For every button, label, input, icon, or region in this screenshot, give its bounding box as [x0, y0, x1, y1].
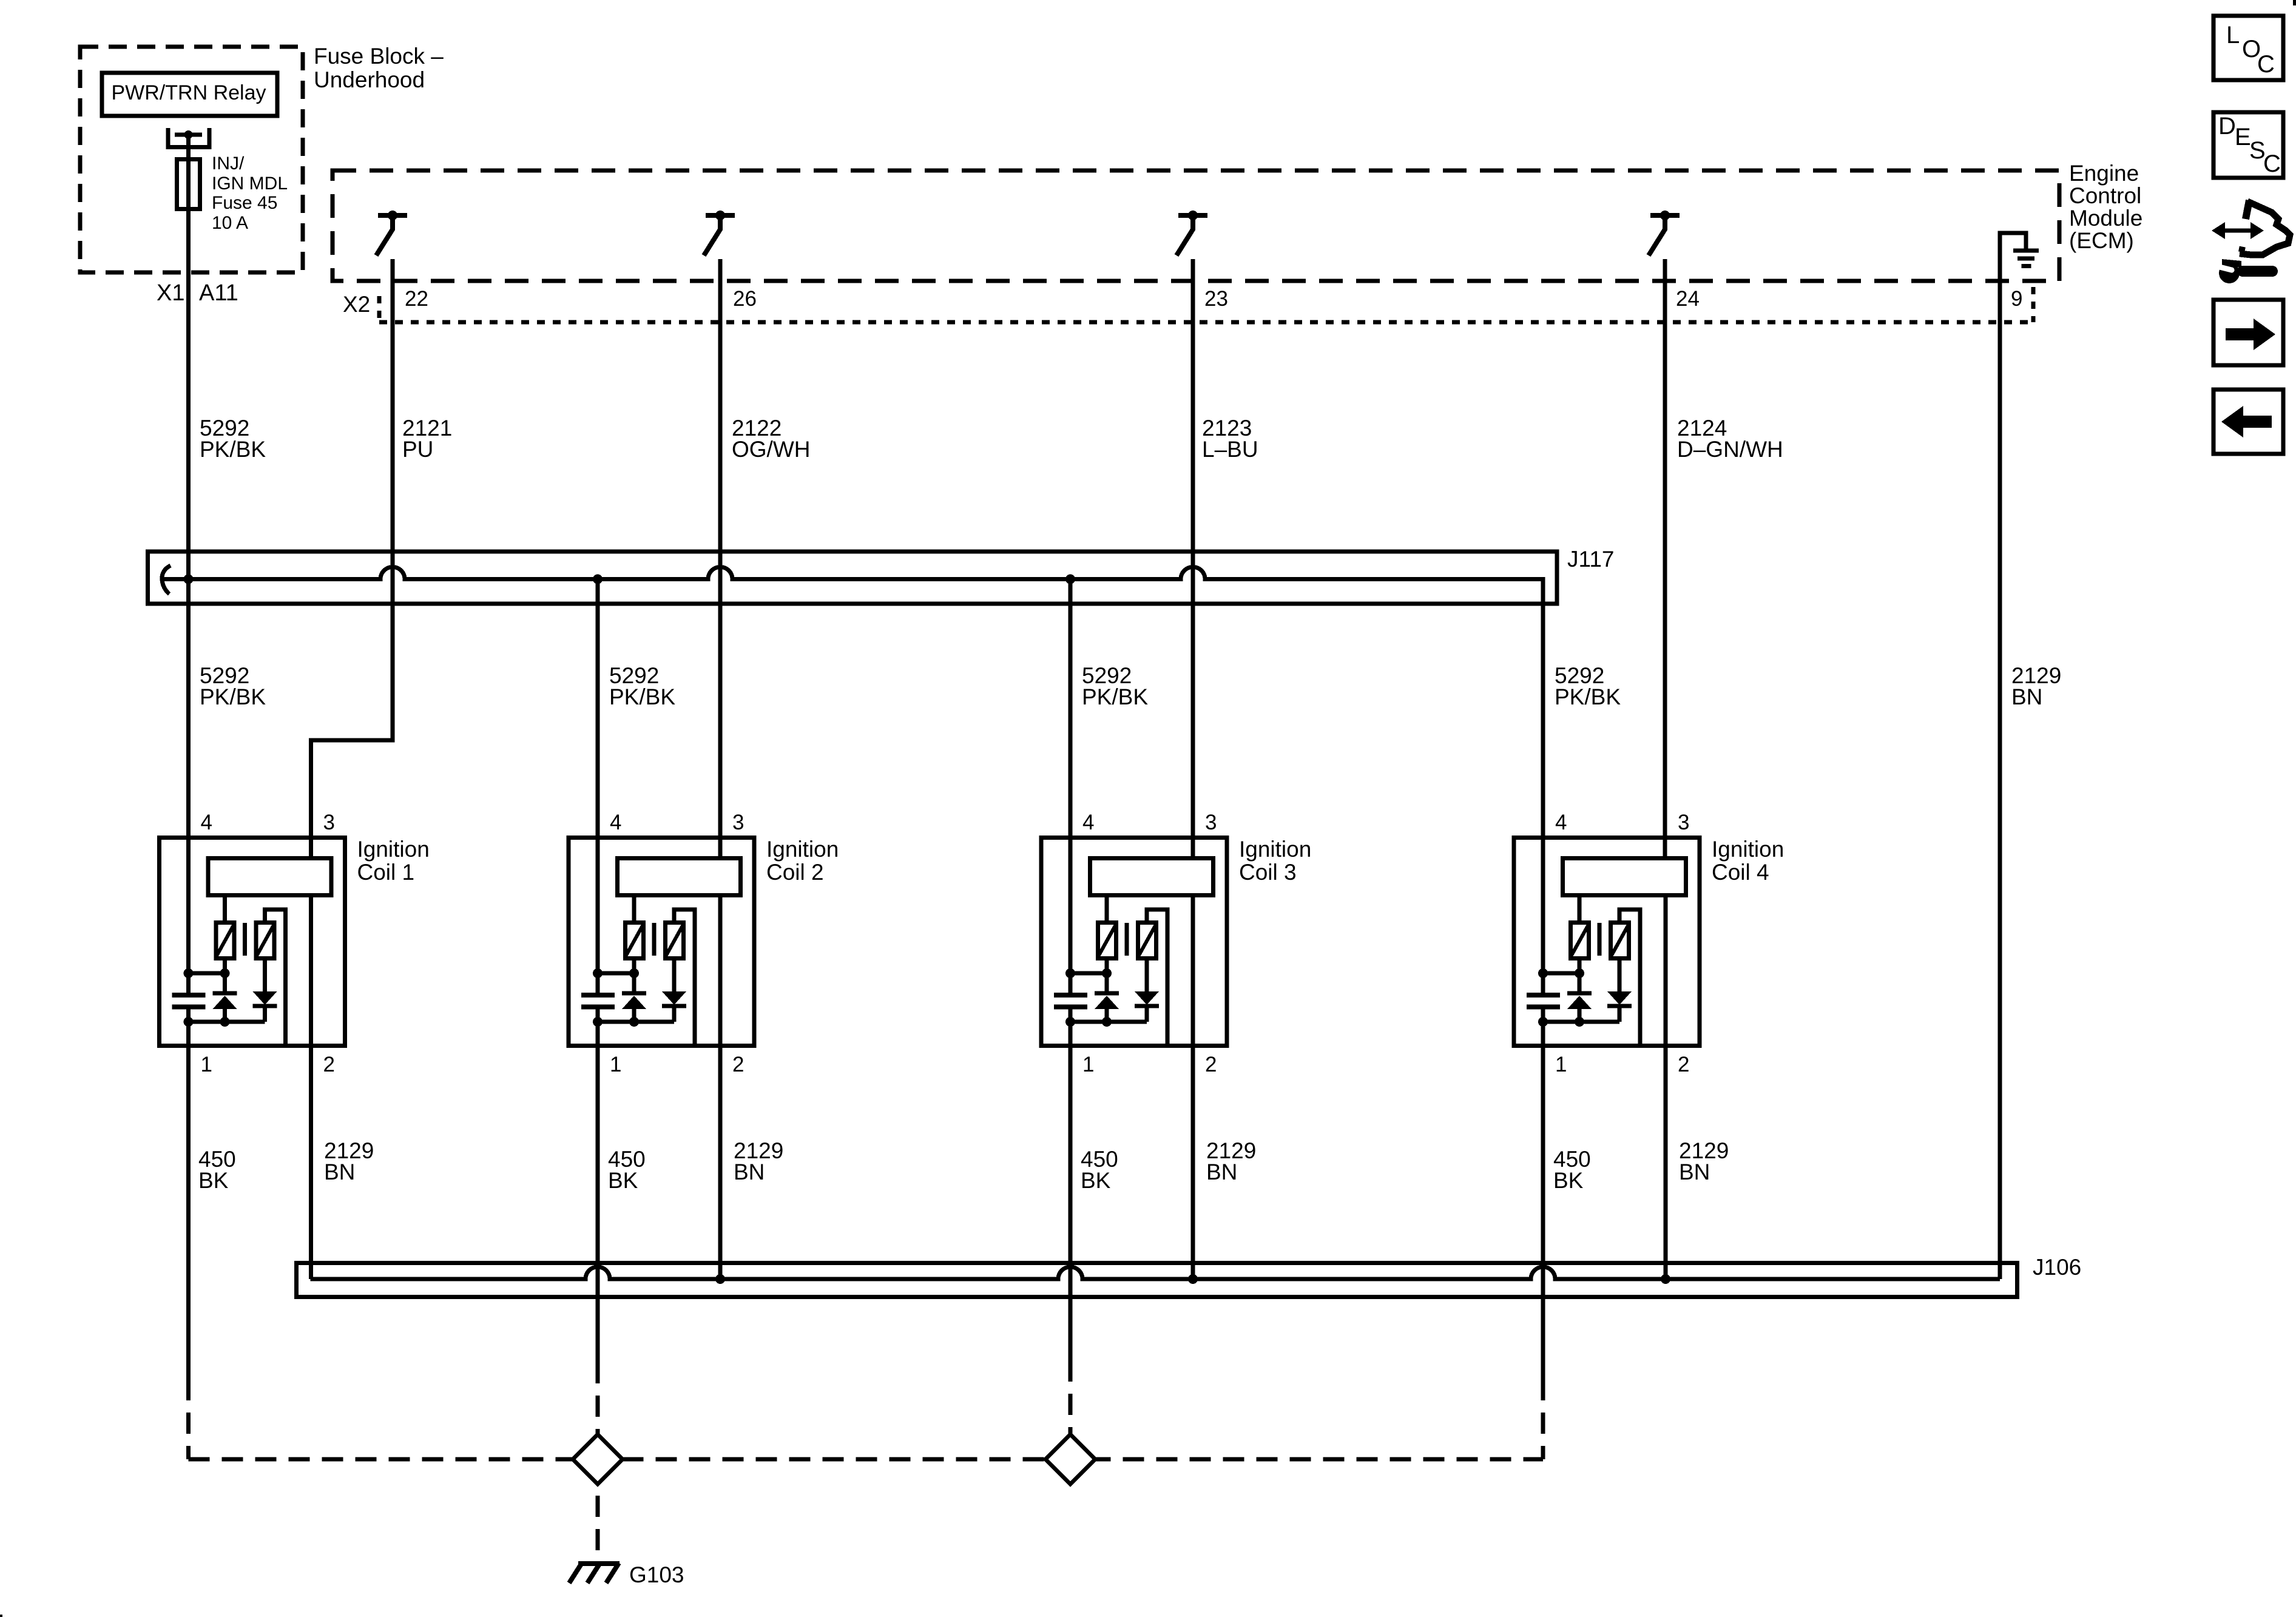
svg-text:Fuse Block –: Fuse Block – [314, 44, 444, 69]
ignition coil 3 bottom junction wire [1070, 1020, 1147, 1024]
ignition coil 3 outer box [1041, 838, 1227, 1046]
wire from pin 23 [1191, 259, 1195, 858]
ECM driver switch pin 24 [1650, 213, 1680, 218]
svg-text:D: D [2218, 113, 2236, 140]
engine control module dashed box [333, 170, 2059, 281]
svg-text:Ignition: Ignition [766, 837, 839, 862]
wire from pin 26 [718, 259, 723, 858]
svg-text:4: 4 [1555, 811, 1567, 834]
svg-text:4: 4 [1082, 811, 1094, 834]
ignition coil 1 bottom dot B [220, 1017, 230, 1027]
ignition coil 4 junction dot A [1538, 968, 1548, 978]
svg-text:BN: BN [324, 1160, 355, 1184]
ignition coil 4 loop wire from driver 2 to case bottom [1619, 910, 1640, 1048]
ECM internal ground and wire 2129 from pin 9 to J106 [2000, 233, 2026, 1279]
svg-text:3: 3 [732, 811, 744, 834]
svg-text:Ignition: Ignition [1712, 837, 1784, 862]
ignition coil 2 zener diode D1 (up) [632, 960, 636, 993]
J106 dot coil 4 [1661, 1274, 1670, 1284]
svg-text:Module: Module [2069, 206, 2142, 231]
svg-text:E: E [2235, 124, 2251, 150]
ignition coil 4 driver box 2 [1611, 923, 1629, 959]
page corner mark top right [2293, 0, 2296, 5]
ignition coil 1 junction wire row [189, 971, 225, 976]
svg-text:3: 3 [1678, 811, 1689, 834]
svg-text:Control: Control [2069, 183, 2141, 208]
J106 dot coil 2 [715, 1274, 725, 1284]
ignition coil 3 zener diode D1 (up) [1105, 960, 1109, 993]
ignition coil 1 junction dot A [184, 968, 194, 978]
ignition coil 1 diode D2 (down) [263, 960, 267, 991]
dashed ground bus wire [189, 1457, 1544, 1462]
svg-text:G103: G103 [629, 1562, 684, 1587]
svg-text:Coil 2: Coil 2 [766, 860, 824, 885]
ignition coil 1 driver box 2 [256, 923, 274, 959]
svg-text:1: 1 [201, 1053, 212, 1076]
ignition coil 3 capacitor C [1069, 973, 1073, 993]
PWR/TRN relay box [102, 73, 277, 116]
ignition coil 2 bottom junction wire [598, 1020, 674, 1024]
wire 2129 coil 3 pin 2 to J106 [1191, 896, 1195, 1279]
page corner mark bottom left [0, 1615, 2, 1617]
svg-text:23: 23 [1204, 287, 1228, 311]
svg-text:Coil 3: Coil 3 [1239, 860, 1297, 885]
ignition coil 2 capacitor C [596, 973, 600, 993]
J117 dot coil 2 feed [593, 575, 603, 584]
ignition coil 2 driver box 2 [666, 923, 684, 959]
relay terminal bracket [168, 128, 209, 147]
ignition coil 3 bottom dot A [1065, 1017, 1075, 1027]
ignition coil 4 driver box 1 [1571, 923, 1589, 959]
svg-text:BK: BK [1553, 1168, 1584, 1193]
J106 dot coil 3 [1188, 1274, 1198, 1284]
ignition coil 2 diode D2 (down) [672, 960, 677, 991]
ignition coil 1 primary winding box [208, 859, 331, 896]
svg-text:26: 26 [733, 287, 757, 311]
svg-text:BK: BK [198, 1168, 229, 1193]
svg-text:OG/WH: OG/WH [732, 437, 810, 462]
J117 internal bus wire with hops, exits down to coil 4 pin 4 [162, 565, 171, 594]
svg-text:C: C [2257, 51, 2275, 78]
ignition coil 2 junction dot B [629, 968, 639, 978]
ignition coil 2 junction dot A [593, 968, 603, 978]
J106 internal bus wire with hops [311, 1267, 2001, 1279]
svg-text:4: 4 [201, 811, 212, 834]
ignition coil 1 outer box [160, 838, 345, 1046]
ECM driver switch pin 23 [1178, 213, 1207, 218]
svg-text:PK/BK: PK/BK [200, 684, 266, 709]
ignition coil 3 junction dot B [1102, 968, 1112, 978]
svg-text:10 A: 10 A [212, 213, 248, 233]
svg-text:Ignition: Ignition [357, 837, 430, 862]
ignition coil 2 pin 1 internal wire [596, 1022, 600, 1048]
svg-text:PWR/TRN Relay: PWR/TRN Relay [111, 81, 266, 104]
svg-text:24: 24 [1676, 287, 1700, 311]
splice pack J106 box [297, 1263, 2017, 1297]
ignition coil 2 bottom dot A [593, 1017, 603, 1027]
ignition coil 3 wire primary to driver 1 [1105, 896, 1109, 922]
fuse 45 symbol [177, 160, 200, 209]
wire 5292 J117 to coil 2 pin 4 [596, 579, 600, 974]
svg-text:3: 3 [1205, 811, 1217, 834]
svg-text:L–BU: L–BU [1202, 437, 1258, 462]
ignition coil 3 loop wire from driver 2 to case bottom [1147, 910, 1167, 1048]
svg-text:J106: J106 [2033, 1255, 2081, 1280]
ignition coil 4 outer box [1514, 838, 1700, 1046]
svg-text:BN: BN [1679, 1160, 1710, 1184]
svg-text:2: 2 [732, 1053, 744, 1076]
ignition coil 4 zener diode D1 (up) [1578, 960, 1582, 993]
ignition coil 1 center tick [243, 923, 247, 956]
ignition coil 3 diode D2 (down) [1145, 960, 1149, 991]
svg-text:INJ/: INJ/ [212, 154, 245, 174]
ignition coil 4 center tick [1598, 923, 1602, 956]
wire 5292 J117 to coil 3 pin 4 [1069, 579, 1073, 974]
svg-text:D–GN/WH: D–GN/WH [1677, 437, 1783, 462]
ignition coil 3 center tick [1125, 923, 1129, 956]
ignition coil 2 primary winding box [618, 859, 741, 896]
ignition coil 2 junction wire row [598, 971, 634, 976]
svg-text:BK: BK [608, 1168, 638, 1193]
svg-text:Coil 4: Coil 4 [1712, 860, 1769, 885]
svg-text:PK/BK: PK/BK [1082, 684, 1148, 709]
ignition coil 4 wire primary to driver 1 [1578, 896, 1582, 922]
svg-text:(ECM): (ECM) [2069, 228, 2134, 253]
svg-text:X2: X2 [343, 292, 370, 317]
ignition coil 4 pin 1 internal wire [1541, 1022, 1545, 1048]
connector right stub [2031, 287, 2036, 322]
splice diamond S2 [1045, 1434, 1095, 1484]
J117 dot coil 3 feed [1065, 575, 1075, 584]
wire 450 coil 1 pin 1 down [186, 1048, 191, 1379]
svg-text:BN: BN [1206, 1160, 1237, 1184]
ignition coil 2 wire primary to driver 1 [632, 896, 636, 922]
ignition coil 4 bottom dot A [1538, 1017, 1548, 1027]
svg-text:2: 2 [1678, 1053, 1689, 1076]
ignition coil 1 zener diode D1 (up) [223, 960, 227, 993]
ignition coil 1 junction dot B [220, 968, 230, 978]
svg-text:Engine: Engine [2069, 161, 2139, 186]
svg-text:1: 1 [610, 1053, 621, 1076]
ignition coil 1 wire primary to driver 1 [223, 896, 227, 922]
ignition coil 4 capacitor C [1541, 973, 1545, 993]
svg-text:3: 3 [323, 811, 335, 834]
svg-text:9: 9 [2011, 287, 2022, 311]
ignition coil 1 loop wire from driver 2 to case bottom [265, 910, 286, 1048]
svg-text:PU: PU [402, 437, 433, 462]
fuse block underhood dashed box [80, 47, 303, 272]
splice diamond S1 [573, 1434, 623, 1484]
svg-text:BN: BN [734, 1160, 765, 1184]
splice pack J117 box [148, 552, 1558, 604]
X2 connector left stub [377, 296, 382, 322]
svg-text:BK: BK [1081, 1168, 1111, 1193]
ignition coil 1 bottom dot A [184, 1017, 194, 1027]
J117 dot coil 1 feed [184, 575, 194, 584]
svg-text:Underhood: Underhood [314, 67, 425, 92]
ignition coil 3 bottom dot B [1102, 1017, 1112, 1027]
svg-text:C: C [2263, 150, 2281, 177]
ignition coil 3 pin 1 internal wire [1069, 1022, 1073, 1048]
svg-text:X1: X1 [157, 280, 184, 306]
svg-text:IGN MDL: IGN MDL [212, 174, 288, 194]
svg-text:2: 2 [323, 1053, 335, 1076]
relay contact dot [184, 130, 193, 139]
ignition coil 2 bottom dot B [629, 1017, 639, 1027]
ignition coil 3 primary winding box [1090, 859, 1214, 896]
ignition coil 4 primary winding box [1563, 859, 1686, 896]
wire from pin 22 with jog [311, 259, 393, 858]
svg-text:PK/BK: PK/BK [200, 437, 266, 462]
ignition coil 1 pin 1 internal wire [186, 1022, 191, 1048]
hand repair icon wrench [2243, 266, 2272, 277]
next arrow icon box [2213, 300, 2283, 365]
back arrow icon box [2213, 390, 2283, 454]
ignition coil 3 junction dot A [1065, 968, 1075, 978]
ignition coil 4 junction wire row [1543, 971, 1579, 976]
ignition coil 1 driver box 1 [216, 923, 234, 959]
wire 450 coil 3 pin 1 down [1069, 1048, 1073, 1360]
ignition coil 1 bottom junction wire [189, 1020, 265, 1024]
svg-text:BN: BN [2011, 684, 2042, 709]
svg-text:4: 4 [610, 811, 621, 834]
wire 450 coil 4 pin 1 down [1541, 1048, 1545, 1379]
wire from pin 24 [1663, 259, 1667, 858]
svg-text:L: L [2226, 22, 2240, 49]
svg-text:A11: A11 [199, 280, 238, 306]
svg-text:J117: J117 [1567, 547, 1615, 572]
ECM driver switch pin 26 [706, 213, 735, 218]
ignition coil 4 bottom junction wire [1543, 1020, 1619, 1024]
ignition coil 3 driver box 1 [1098, 923, 1116, 959]
ignition coil 2 outer box [569, 838, 754, 1046]
svg-text:2: 2 [1205, 1053, 1217, 1076]
wire 2129 coil 2 pin 2 to J106 [718, 896, 723, 1279]
ECM driver switch pin 22 [378, 213, 407, 218]
LOC icon box [2213, 16, 2283, 80]
ignition coil 4 diode D2 (down) [1618, 960, 1622, 991]
svg-text:Ignition: Ignition [1239, 837, 1311, 862]
ignition coil 2 center tick [652, 923, 657, 956]
ground G103 symbol [578, 1561, 620, 1566]
ignition coil 2 loop wire from driver 2 to case bottom [674, 910, 695, 1048]
relay contact bar [175, 133, 202, 137]
hand repair icon hand outline [2246, 200, 2249, 219]
svg-text:Fuse 45: Fuse 45 [212, 193, 277, 213]
wire 5292 from relay through fuse to coil 1 pin 4 [186, 135, 191, 973]
ignition coil 4 junction dot B [1575, 968, 1584, 978]
ignition coil 3 junction wire row [1070, 971, 1107, 976]
ECM connector dotted line [379, 320, 2033, 325]
wire 2129 coil 1 pin 2 to J106 start [309, 896, 313, 1279]
hand repair icon double arrow [2222, 229, 2254, 233]
svg-text:1: 1 [1082, 1053, 1094, 1076]
svg-text:PK/BK: PK/BK [609, 684, 675, 709]
svg-text:PK/BK: PK/BK [1555, 684, 1621, 709]
DESC icon box [2213, 112, 2283, 178]
svg-text:Coil 1: Coil 1 [357, 860, 415, 885]
ignition coil 1 capacitor C [186, 973, 191, 993]
ignition coil 4 bottom dot B [1575, 1017, 1584, 1027]
wire 2129 coil 4 pin 2 to J106 [1664, 896, 1668, 1279]
svg-text:22: 22 [405, 287, 428, 311]
ignition coil 3 driver box 2 [1138, 923, 1156, 959]
svg-text:1: 1 [1555, 1053, 1567, 1076]
ignition coil 2 driver box 1 [626, 923, 644, 959]
wire 450 coil 2 pin 1 down through J106 to G103 [596, 1048, 600, 1362]
